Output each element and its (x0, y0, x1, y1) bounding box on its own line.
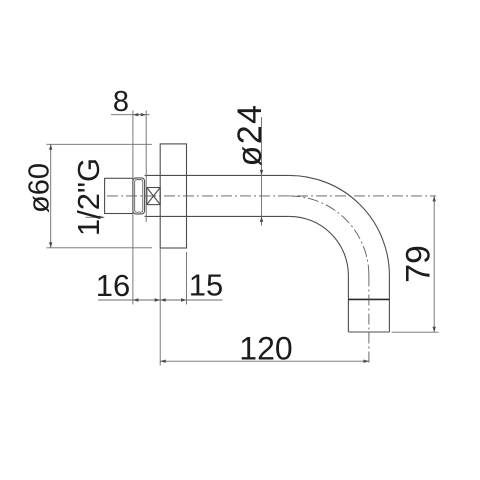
arrow 120 right (364, 360, 370, 363)
dim 79 extension bottom (392, 331, 439, 333)
leader 1/2"G (86, 216, 105, 218)
dim 79 line (433, 196, 435, 332)
inner bend arc (289, 216, 348, 275)
dim ⌀60 extension top (47, 143, 153, 145)
arrow 15 right (181, 298, 187, 301)
thread 1/2"G male inlet (105, 178, 133, 213)
svg-text:ø24: ø24 (231, 103, 269, 166)
arrow leader 1/2"G (99, 216, 105, 219)
arrow ⌀60 bottom (49, 242, 52, 248)
arrow 8 right (141, 113, 147, 116)
vertical spout right edge (388, 276, 390, 333)
dim 8 extension left / 16 left (132, 111, 134, 305)
svg-text:120: 120 (239, 330, 292, 366)
tube bottom line (145, 215, 290, 217)
arrow 120 left (160, 360, 166, 363)
arrow ⌀60 top (49, 144, 52, 150)
svg-text:8: 8 (113, 86, 129, 118)
svg-text:15: 15 (189, 268, 223, 303)
svg-text:79: 79 (400, 245, 438, 283)
arrow 15 left (160, 298, 166, 301)
dim 8 line (111, 114, 150, 116)
centerline vertical (368, 276, 370, 366)
arrow ⌀24 bottom (260, 216, 263, 222)
vertical spout left edge (347, 276, 349, 333)
tube top line (145, 174, 290, 176)
dim 15 extension right (186, 252, 188, 305)
dim ⌀60 line (50, 144, 52, 248)
svg-text:16: 16 (96, 268, 130, 303)
svg-text:ø60: ø60 (24, 163, 56, 213)
centerline bend arc (289, 196, 369, 276)
arrow 16 left (133, 298, 139, 301)
dim 120 line (160, 360, 369, 362)
collar ring (133, 178, 145, 214)
arrow 8 left (133, 113, 139, 116)
spout cap joint line (348, 298, 389, 300)
seal cross-section square with X (147, 188, 160, 205)
arrow ⌀24 top (260, 170, 263, 176)
dim wall face extension (159, 248, 161, 366)
arrow 79 bottom (433, 327, 436, 333)
dim 16/15 line (98, 299, 223, 301)
dim 8 extension right (145, 111, 147, 223)
outer bend arc (289, 175, 389, 275)
centerline horizontal (107, 195, 436, 197)
arrow 79 top (433, 196, 436, 202)
svg-text:1/2"G: 1/2"G (71, 158, 106, 236)
wall flange disc (side view) (160, 144, 186, 248)
dim ⌀60 extension bottom (47, 247, 153, 249)
dim ⌀24 line (261, 117, 263, 226)
spout bottom end line (348, 331, 389, 333)
arrow 16 right (155, 298, 161, 301)
